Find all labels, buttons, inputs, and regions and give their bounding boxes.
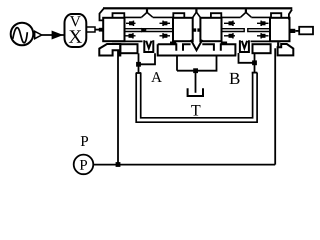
spool neck joint between L2 and L3 <box>193 28 201 31</box>
spool stem right rod <box>299 27 313 35</box>
wire B down to hose <box>254 63 256 73</box>
valve body top right bevel <box>289 10 292 20</box>
sleeve inner line bay1 left <box>125 16 142 18</box>
label P inside gauge <box>80 160 87 170</box>
flow arrow bottom-left pointing left <box>125 33 136 38</box>
sleeve inner line bay2 left <box>222 16 241 18</box>
label X <box>69 30 82 42</box>
flow arrow bottom-right2 pointing left <box>224 33 235 38</box>
wire T port left leg <box>176 56 178 71</box>
bottom body lap lip left of L2 <box>170 42 176 45</box>
spool stem left rod <box>86 27 95 32</box>
node B junction <box>252 60 257 65</box>
wire B port left leg <box>239 53 255 63</box>
valve body top bar <box>103 7 292 9</box>
flow arrow top-left pointing left <box>126 21 136 26</box>
bottom body M port left (A port) <box>144 40 153 52</box>
hose inner loop A to B <box>141 73 253 118</box>
signal generator G1 circle <box>11 23 34 46</box>
spool rod bay2 left segment <box>221 28 244 32</box>
sleeve inner line bay2 right <box>251 16 270 18</box>
spool boss on land2 <box>173 13 184 17</box>
spool rod joint pinch <box>142 29 147 32</box>
spool land L3 <box>200 18 221 41</box>
bottom body rect right <box>253 44 271 53</box>
hose outer loop A to B <box>136 73 257 123</box>
spool stem right block <box>290 29 296 33</box>
open arrowhead at G1 output <box>35 31 42 38</box>
spool rod bay2 right segment <box>248 28 270 32</box>
flow arrow bottom-right pointing right <box>257 33 269 38</box>
wire A port left leg <box>138 53 140 64</box>
filled arrowhead on wire <box>53 32 61 38</box>
spool land L2 <box>173 18 193 41</box>
wire G1 to amplifier <box>42 34 65 36</box>
pressure gauge circle <box>74 155 94 175</box>
bottom body lap lip right of L3 <box>221 42 227 45</box>
valve body top left bevel <box>100 9 104 21</box>
wire B port right leg <box>254 53 256 63</box>
label A <box>151 72 162 82</box>
top Y passage 1 <box>142 9 153 17</box>
bottom body M port right (B port) <box>240 40 249 52</box>
sine wave inside G1 <box>13 28 27 43</box>
spool boss on land3 <box>211 13 221 17</box>
label B <box>230 73 240 84</box>
sleeve inner line bay1 right <box>153 16 173 18</box>
label P above gauge <box>81 136 88 146</box>
spool boss on land1 <box>113 13 125 17</box>
top center tent <box>193 9 201 17</box>
bottom body bay floor right <box>251 40 282 42</box>
bottom body center plate <box>157 40 237 56</box>
spool boss on land4 <box>271 13 281 17</box>
wire P port left down <box>117 50 119 164</box>
wire A port right leg <box>139 53 156 64</box>
tank symbol <box>187 88 204 96</box>
flow arrow top-right2 pointing left <box>224 21 235 26</box>
label T <box>191 105 200 115</box>
spool land L1 <box>103 18 124 41</box>
spool rod bay1 bottom edge <box>125 31 174 33</box>
label V <box>70 16 81 26</box>
spool land L4 <box>270 18 290 41</box>
top Y passage 2 <box>241 9 252 17</box>
wire P supply bottom line <box>93 164 275 166</box>
wire P port right riser <box>274 48 276 164</box>
stem left block <box>99 28 103 32</box>
spool rod bay1 top edge <box>125 28 174 30</box>
wire A down to hose <box>138 64 140 73</box>
bottom body boot right <box>278 44 294 55</box>
stem link wire <box>95 29 99 31</box>
wire T down to tank <box>195 71 197 93</box>
bottom body lap lip right of rect2 <box>277 42 279 47</box>
stem right link wire <box>295 30 299 32</box>
bottom body bay floor left <box>112 40 143 42</box>
hose cap B <box>252 72 258 74</box>
node A junction <box>136 62 141 67</box>
node T junction <box>193 68 198 73</box>
bottom body rect left <box>120 44 137 53</box>
wire T port right leg <box>177 56 217 71</box>
hose cap A <box>136 72 142 74</box>
bottom body boot left with P notch <box>99 44 120 56</box>
node junction P line <box>116 162 121 167</box>
amplifier/transducer U1 (V over X) <box>65 14 87 47</box>
flow arrow top-right pointing right <box>257 21 269 26</box>
flow arrow top-left2 pointing right <box>160 21 171 26</box>
flow arrow bottom-left2 pointing right <box>160 33 171 38</box>
